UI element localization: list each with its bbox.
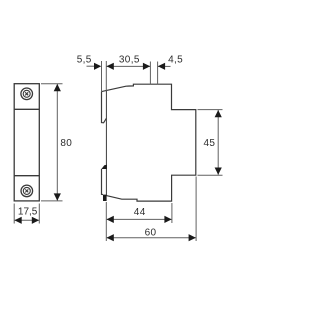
svg-text:44: 44 (134, 207, 146, 218)
dimension 5,5 leader line (87, 65, 95, 67)
dimension 44 arrow left (107, 216, 114, 223)
terminal screw top (21, 88, 33, 100)
svg-text:5,5: 5,5 (77, 55, 92, 66)
dimension 60 arrow right (189, 234, 196, 241)
dimension 80 arrow up (54, 84, 61, 91)
top dimensions extension lines (87, 61, 171, 92)
svg-text:17,5: 17,5 (18, 206, 38, 217)
svg-text:30,5: 30,5 (119, 55, 140, 66)
clip spring wedge (solid) (101, 165, 107, 169)
clip latch block (solid) (103, 195, 107, 201)
dimension 30,5 arrow left (107, 63, 114, 70)
svg-text:4,5: 4,5 (168, 54, 183, 65)
dimension 45 arrow up (215, 110, 222, 117)
dimension 4,5 leader line (158, 65, 171, 67)
terminal screw bottom (21, 185, 33, 197)
svg-text:80: 80 (60, 138, 72, 149)
dimension 80 extension and dimension lines (41, 84, 63, 201)
svg-text:60: 60 (145, 228, 157, 239)
side view bottom clip housing line (102, 169, 104, 195)
side view top rail hook (102, 92, 107, 123)
dimension 45 extension and dimension lines (198, 110, 223, 176)
dimension 30,5 arrow right (143, 63, 150, 70)
side view profile outline (102, 84, 196, 201)
dimension 17,5 arrow left (14, 217, 21, 224)
dimension 60 dimension line (107, 237, 196, 239)
side view back face line (105, 91, 107, 196)
dimension 17,5 arrow right (32, 217, 39, 224)
dimension 5,5 arrow (94, 63, 101, 70)
dimension 45 arrow down (215, 168, 222, 175)
dimension 44 dimension line (107, 218, 172, 220)
bottom dimensions extension lines (106, 177, 196, 242)
svg-text:45: 45 (204, 138, 216, 149)
front view module body outline (14, 84, 39, 201)
dimension 44 arrow right (164, 216, 171, 223)
dimension 60 arrow left (107, 234, 114, 241)
dimension 4,5 arrow (158, 63, 165, 70)
dimension 17,5 extension and dimension lines (14, 204, 39, 224)
dimension 30,5 dimension line (106, 65, 150, 67)
dimension 80 arrow down (54, 193, 61, 200)
